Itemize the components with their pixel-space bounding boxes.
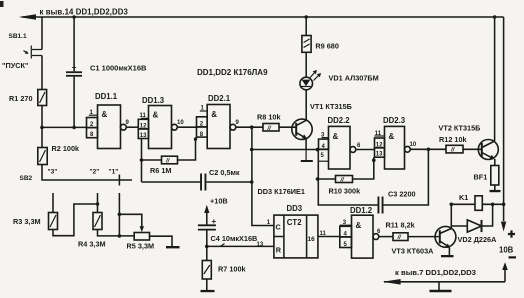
svg-text:"2": "2" — [90, 169, 100, 176]
diode VD2 Д226А — [451, 204, 497, 244]
wire R12 to VT2 base — [463, 148, 482, 150]
capacitor C2 0,5мк — [142, 168, 252, 191]
svg-text:DD3: DD3 — [287, 204, 303, 213]
svg-text:C2 0,5мк: C2 0,5мк — [209, 168, 240, 177]
resistor R6 1M — [142, 156, 178, 175]
svg-text:к выв.7 DD1,DD2,DD3: к выв.7 DD1,DD2,DD3 — [395, 268, 476, 277]
svg-text:C3 2200: C3 2200 — [388, 190, 416, 199]
wire R2 to SB2 line — [42, 165, 132, 181]
wire switch to R1 — [41, 56, 43, 90]
wire R1 to node — [41, 106, 43, 148]
svg-text:DD2.1: DD2.1 — [208, 94, 231, 103]
svg-text:10В: 10В — [499, 246, 514, 255]
transistor VT1 КТ315Б — [292, 102, 352, 150]
wire right rail down — [503, 17, 505, 221]
svg-text:DD1.3: DD1.3 — [142, 96, 165, 105]
svg-text:11: 11 — [375, 131, 382, 137]
wire DD1.1 out to DD1.3, pin 9 — [126, 120, 139, 127]
relay K1 — [450, 193, 506, 210]
stray scan mark top-left — [0, 1, 4, 7]
ground bottom rail — [430, 282, 452, 293]
node C1 junction — [72, 126, 76, 130]
svg-text:+: + — [72, 63, 77, 72]
wire contact 3 down to R3 — [52, 193, 54, 213]
wire DD2.3 out to R12, pin 10 — [410, 142, 447, 151]
gate DD2.3 — [375, 116, 411, 169]
svg-text:R1 270: R1 270 — [9, 94, 33, 103]
svg-text:K1: K1 — [459, 193, 468, 202]
svg-text:R: R — [276, 246, 282, 255]
svg-text:R6 1M: R6 1M — [150, 166, 172, 175]
svg-text:"ПУСК": "ПУСК" — [2, 61, 28, 70]
svg-text:DD1.2: DD1.2 — [350, 206, 373, 215]
svg-text:VD2 Д226А: VD2 Д226А — [458, 235, 498, 244]
wire R5 to ground — [150, 236, 173, 246]
capacitor C1 1000мкХ16В — [66, 15, 147, 127]
wire DD2.1 out to R8, pin 9 — [236, 120, 264, 129]
node top rail: к выв.14 DD1,DD2,DD3 — [19, 8, 504, 20]
svg-text:13: 13 — [376, 152, 383, 158]
resistor R3 3,3M — [13, 213, 58, 230]
svg-text:SB1.1: SB1.1 — [9, 33, 27, 40]
wire R3 bottom loop to R4 top node — [53, 204, 97, 236]
svg-text:C1 1000мкХ16В: C1 1000мкХ16В — [90, 64, 147, 73]
ground R7 — [201, 279, 215, 292]
resistor R7 100k — [202, 261, 246, 280]
svg-text:R5 3,3M: R5 3,3M — [127, 242, 155, 251]
svg-text:R12 10k: R12 10k — [439, 135, 468, 144]
gate DD1.1 — [87, 92, 127, 149]
wire DD2.2 out to DD2.3, pin 6 — [356, 143, 375, 150]
svg-text:CT2: CT2 — [287, 218, 302, 227]
wire DD1.3 pin13 down — [141, 139, 143, 183]
svg-text:16: 16 — [308, 236, 316, 243]
resistor R1 270 — [9, 90, 47, 106]
resistor R4 3,3M — [78, 213, 106, 249]
svg-text:DD3 К176ИЕ1: DD3 К176ИЕ1 — [258, 187, 305, 196]
svg-text:R8 10k: R8 10k — [257, 113, 281, 122]
svg-text:C4 10мкХ16В: C4 10мкХ16В — [211, 234, 258, 243]
node C4/R7/DD3-R junction — [205, 245, 209, 249]
gate DD2.2 — [319, 116, 356, 169]
supply arrow +10B — [204, 197, 227, 226]
terminal arrow - (minus) — [502, 262, 508, 282]
wire R11 to VT3 base — [408, 236, 439, 238]
svg-text:R9 680: R9 680 — [315, 42, 339, 51]
svg-text:&: & — [102, 110, 108, 119]
svg-text:11: 11 — [140, 113, 147, 119]
svg-text:R3 3,3M: R3 3,3M — [13, 217, 41, 226]
resistor R10 300k — [318, 157, 376, 195]
wire VT2 collector to top rail — [494, 17, 496, 141]
counter DD3 CT2 — [257, 204, 340, 258]
svg-text:VT2 КТ315Б: VT2 КТ315Б — [439, 124, 481, 133]
wire contact 2 down to R4 — [97, 193, 99, 213]
svg-text:VT3 КТ603А: VT3 КТ603А — [392, 247, 435, 256]
svg-text:&: & — [333, 132, 339, 141]
gate DD1.2 — [340, 206, 393, 258]
wire DD2.2 node down to R10/C3 — [317, 150, 319, 205]
wire R6 to DD2.1 pin8 — [178, 137, 196, 160]
resistor R12 10k — [439, 135, 468, 154]
switch SB2 — [20, 169, 120, 186]
svg-text:VT1 КТ315Б: VT1 КТ315Б — [310, 102, 352, 111]
svg-text:10: 10 — [177, 120, 184, 126]
terminal arrow + — [501, 222, 506, 232]
svg-text:DD2.3: DD2.3 — [383, 116, 406, 125]
svg-text:R10 300k: R10 300k — [329, 187, 362, 196]
svg-text:10: 10 — [410, 142, 417, 148]
svg-text:&: & — [356, 221, 362, 230]
transistor VT2 КТ315Б — [439, 124, 499, 166]
capacitor C4 10мкХ16В — [198, 217, 257, 261]
wire R8 to VT1 base — [279, 126, 296, 128]
resistor R9 680 — [302, 15, 339, 77]
svg-text:R7 100k: R7 100k — [218, 265, 247, 274]
svg-text:13: 13 — [140, 133, 147, 139]
wire DD2.1-out node to DD2.2 input (emitter row) — [252, 149, 329, 151]
wire LED to VT1 collector — [297, 90, 306, 125]
node bottom rail: к выв.7 DD1,DD2,DD3 — [383, 268, 505, 285]
capacitor C3 2200 — [318, 149, 429, 213]
svg-text:C: C — [276, 223, 282, 232]
wire contact 1 down — [118, 193, 120, 236]
svg-text:BF1: BF1 — [474, 173, 488, 182]
wire R4 bottom to R5 — [98, 230, 135, 236]
gate DD1.3 — [138, 96, 177, 149]
switch SB1.1 — [2, 33, 42, 70]
wire C4 node to DD3 R input — [207, 245, 274, 247]
resistor R5 3,3M — [127, 233, 155, 251]
wire arrow tap to R5 — [119, 214, 144, 232]
resistor R11 8,2k — [386, 221, 416, 242]
svg-text:R2 100k: R2 100k — [52, 144, 81, 153]
svg-text:DD1.1: DD1.1 — [95, 92, 118, 101]
svg-text:SB2: SB2 — [20, 175, 33, 182]
buzzer BF1 — [474, 166, 501, 193]
wire node to DD1.1 input — [42, 126, 87, 128]
svg-text:&: & — [211, 110, 217, 119]
svg-text:R4 3,3M: R4 3,3M — [78, 240, 106, 249]
resistor R8 10k — [257, 113, 281, 132]
svg-text:&: & — [389, 132, 395, 141]
svg-text:VD1 АЛ307БМ: VD1 АЛ307БМ — [329, 74, 379, 83]
gate DD2.1 — [197, 94, 236, 149]
node junction R1/R2/DD1.1 — [40, 126, 44, 130]
svg-text:"1": "1" — [109, 169, 119, 176]
wire SB1 branch from rail — [41, 17, 43, 50]
svg-text:+10B: +10B — [210, 197, 228, 206]
svg-text:DD1,DD2 К176ЛА9: DD1,DD2 К176ЛА9 — [197, 68, 268, 77]
svg-text:&: & — [153, 111, 159, 120]
svg-text:"3": "3" — [48, 169, 58, 176]
wire DD2.2 pin 5 input — [318, 160, 328, 162]
svg-text:DD2.2: DD2.2 — [328, 116, 351, 125]
resistor R2 100k — [38, 144, 80, 165]
LED VD1 АЛ307БМ — [300, 70, 379, 90]
ground tap on emitter wire — [301, 150, 313, 162]
wire DD1.3 out to DD2.1, pin 10 — [177, 120, 197, 127]
ground R5 — [166, 246, 180, 248]
transistor VT3 КТ603А — [392, 226, 456, 257]
svg-text:к выв.14 DD1,DD2,DD3: к выв.14 DD1,DD2,DD3 — [40, 8, 129, 17]
wire node DD2.1-out down to DD3 — [252, 127, 274, 225]
svg-text:R11 8,2k: R11 8,2k — [386, 221, 416, 230]
